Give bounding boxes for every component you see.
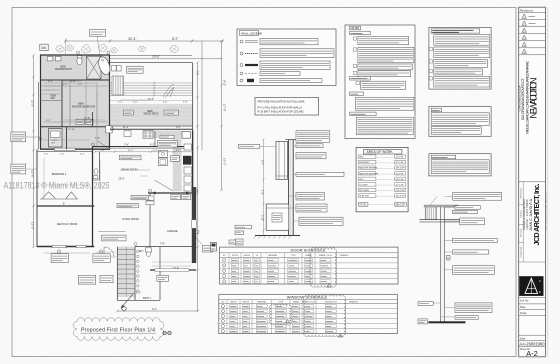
- shower with X: [87, 56, 102, 79]
- column section marker: [447, 255, 450, 260]
- col callout 7: [453, 266, 495, 275]
- toilet: [77, 57, 82, 65]
- floor plan group: [31, 30, 227, 313]
- legend row A existing wall: [240, 40, 243, 43]
- deck right edge: [192, 63, 194, 131]
- job info rows: [519, 296, 546, 298]
- garage left wall: [149, 193, 151, 247]
- label pair in bedroom: [76, 119, 84, 124]
- dims below master block: [44, 154, 85, 156]
- window opening 2: [76, 245, 86, 247]
- vestibule wall: [98, 230, 125, 232]
- revisions header: [519, 12, 546, 14]
- laundry boxes: [112, 66, 117, 72]
- slab lines: [419, 219, 465, 221]
- board dim ticks: [153, 82, 155, 97]
- callout exist structure top: [90, 30, 106, 37]
- bath2 fixtures: [146, 251, 150, 257]
- garage top wall: [148, 192, 196, 194]
- base plate: [428, 321, 465, 323]
- kitchen counters fill: [143, 131, 182, 139]
- stair direction arrow: [121, 294, 133, 308]
- seal row: [519, 334, 546, 336]
- right notes item2: [429, 47, 432, 50]
- architect section divider: [519, 181, 546, 183]
- plant on deck: [163, 84, 174, 98]
- callout below playroom 4: [100, 275, 113, 282]
- bedroom2 top wall: [37, 151, 93, 153]
- legend row E concrete: [240, 79, 243, 82]
- notes item 1: [353, 37, 356, 40]
- right notes item5: [429, 77, 432, 80]
- wall legend box: [237, 29, 336, 86]
- garage right wall thick: [192, 187, 196, 263]
- set top of subfloor label upper: [119, 155, 141, 160]
- right notes item1: [434, 35, 490, 46]
- bath2 walls: [159, 247, 161, 301]
- callout deck label: [127, 66, 144, 73]
- dimension line bottom: [117, 310, 197, 312]
- scale symbols after title: [163, 331, 166, 334]
- garage jambs: [154, 192, 156, 194]
- dimension line second: [110, 58, 223, 60]
- concrete box: [429, 154, 491, 176]
- notes item 4: [353, 71, 356, 74]
- detail right callout 6: [296, 204, 327, 212]
- deck top edge: [110, 62, 193, 64]
- detail right callout 2: [296, 144, 323, 148]
- detail dim line: [263, 140, 265, 236]
- stair left wall: [116, 247, 118, 301]
- detail right callout 7: [299, 217, 343, 225]
- notes header fasteners: [350, 112, 377, 115]
- callout bed dims row: [160, 135, 174, 138]
- column verticals: [440, 207, 442, 322]
- property line: [40, 54, 192, 56]
- leaders column: [430, 197, 460, 317]
- closet doors bedroom2: [42, 192, 55, 199]
- callout right margin garage: [202, 246, 212, 252]
- terrace floor fill: [110, 104, 193, 126]
- wall marker circles: [39, 51, 198, 246]
- wall bath/bedroom divider: [40, 79, 110, 81]
- play room bottom wall: [37, 246, 94, 248]
- wic shelves: [42, 85, 61, 87]
- powder room: [99, 152, 101, 180]
- notes item 2: [353, 48, 356, 51]
- logo black square: [519, 276, 543, 296]
- plan title cloud: [73, 318, 164, 341]
- window opening 1: [52, 245, 66, 247]
- window schedule table: [219, 294, 397, 333]
- revision rows: [519, 19, 546, 21]
- col callout top: [453, 193, 502, 201]
- existing wall at living top: [93, 146, 193, 148]
- wall master block bottom: [40, 148, 110, 150]
- notes box right top: [429, 27, 491, 89]
- exterior wall left: [40, 55, 42, 150]
- area of work total: [358, 203, 368, 207]
- cabinet left of stove: [124, 131, 131, 137]
- callout left bottom A: [235, 225, 251, 229]
- window schedule cloud right: [303, 295, 346, 337]
- left wall bedroom2: [36, 149, 38, 247]
- deck board lines: [110, 82, 193, 84]
- garage wall window gap: [192, 220, 197, 228]
- master block interior dims: [44, 82, 108, 146]
- door schedule table: [220, 247, 399, 284]
- upper cabinet: [276, 142, 288, 180]
- door schedule revision cloud: [310, 248, 337, 288]
- col callout 4: [460, 218, 485, 225]
- col callout bottom right: [455, 303, 492, 313]
- dim line at living top: [95, 151, 193, 153]
- kitchen sink boxes: [159, 150, 168, 157]
- stair numbering circles: [137, 250, 140, 253]
- notes item 5: [356, 82, 359, 85]
- notes para 2: [357, 117, 414, 135]
- callout existing wood: [238, 145, 259, 149]
- stair treads: [117, 249, 135, 251]
- living/hall wall: [135, 246, 192, 248]
- insulation note box: [255, 98, 319, 116]
- leader lines detail: [289, 146, 299, 221]
- bathtub: [97, 55, 112, 76]
- callout left bottom B: [235, 231, 244, 234]
- left wall cavity: [37, 82, 39, 149]
- notes header 2nd floor: [350, 77, 371, 80]
- vanity sinks: [47, 57, 53, 61]
- garage top labels: [171, 195, 181, 200]
- callout terrace left: [123, 110, 133, 115]
- col callout 2: [455, 206, 480, 210]
- logo emblem: [525, 278, 538, 293]
- lower cabinet: [266, 204, 289, 230]
- terrace bottom wall: [110, 125, 193, 127]
- window opening bottom wall: [54, 148, 75, 150]
- callout below playroom 2: [99, 250, 102, 253]
- bedroom2 interior lines: [43, 158, 45, 200]
- left small box bottom: [235, 239, 243, 245]
- dimension line top: [66, 40, 223, 42]
- extra left callout: [11, 164, 26, 174]
- kitchen right wall: [192, 131, 194, 193]
- wall section vertical: [288, 140, 290, 236]
- detail right callout 3: [296, 153, 326, 159]
- callout terrace right: [164, 110, 178, 115]
- wall bottom master bedroom: [40, 126, 110, 128]
- pantry boxes: [184, 144, 192, 150]
- stair bottom: [117, 299, 135, 301]
- callout sub floor: [102, 235, 127, 241]
- garage door opening: [155, 269, 189, 272]
- wall right of master block: [109, 55, 111, 150]
- area of work box: [356, 147, 408, 211]
- callout island: [171, 156, 180, 162]
- floor line: [255, 235, 300, 237]
- door swing living: [155, 180, 173, 191]
- callout left margin: [11, 132, 26, 142]
- existing wall hatch: [425, 207, 427, 220]
- right notes item4: [429, 69, 432, 72]
- oven black: [183, 156, 192, 165]
- col callout left low: [418, 319, 427, 324]
- window boxes right: [106, 126, 113, 133]
- window schedule title row: [219, 299, 397, 301]
- callout below playroom 3: [78, 275, 95, 284]
- legend row B partition: [240, 52, 243, 55]
- exterior wall top (bath block): [40, 54, 110, 56]
- marker diamond: [121, 306, 126, 311]
- dimension line left: [33, 55, 35, 247]
- garage door tracks: [152, 261, 191, 263]
- landscaping trees: [56, 45, 65, 52]
- stair strip fill: [117, 247, 135, 297]
- detail marker left of door schedule: [211, 243, 217, 252]
- callout ac closet: [131, 195, 149, 199]
- col callout 6: [453, 250, 489, 254]
- marker box 5/8: [40, 44, 48, 50]
- col callout left: [418, 302, 433, 306]
- new master suite floor fill: [40, 55, 110, 150]
- deck dim texts row: [118, 102, 188, 104]
- stove burners: [143, 131, 153, 139]
- interior dim lines: [44, 81, 150, 253]
- stair right wall: [134, 247, 136, 301]
- wh closet boxes: [146, 196, 154, 200]
- closet shelving strip: [112, 76, 124, 95]
- detail right callout 1: [296, 131, 330, 142]
- notes para 1: [356, 97, 414, 110]
- wall WIC: [61, 80, 63, 127]
- title block frame: [519, 7, 546, 357]
- col callout spiral tie: [453, 238, 498, 242]
- col callout existing slab: [455, 316, 478, 320]
- dimension line right outer: [221, 41, 223, 190]
- interior dim texts: [48, 80, 181, 311]
- garage bottom wall: [150, 269, 196, 271]
- door schedule title row: [220, 252, 399, 254]
- permits box: [429, 107, 491, 137]
- ac closet label second: [117, 203, 138, 207]
- door swing bedroom: [98, 141, 109, 149]
- outer fold line: [547, 7, 549, 357]
- detail right callout 4: [296, 172, 344, 176]
- beam top lines: [424, 204, 459, 206]
- callout kitchen top: [157, 140, 177, 147]
- kitchen left wall: [154, 131, 156, 147]
- legend row C new wall: [240, 64, 243, 67]
- step room: [49, 129, 63, 148]
- small box above door schedule: [229, 240, 236, 244]
- wall bed2/play divider: [37, 205, 94, 207]
- wall play/living divider: [92, 147, 94, 247]
- architect services strip: [522, 182, 524, 262]
- dimension line right inner: [201, 41, 203, 150]
- notes header general: [350, 92, 364, 95]
- col callout 3: [453, 210, 478, 213]
- legend row D dashed: [240, 72, 243, 75]
- area of work rows: [358, 155, 376, 158]
- kitchen top wall: [110, 128, 193, 130]
- fridge: [182, 132, 190, 139]
- detail right callout 5: [296, 192, 324, 200]
- notes item 3: [353, 64, 356, 67]
- entry door arc: [104, 247, 114, 257]
- terrace hatch lines: [110, 107, 193, 109]
- callout below playroom 1: [57, 250, 60, 253]
- window schedule cloud type: [269, 304, 291, 325]
- right notes item3: [429, 60, 432, 63]
- notes box main: [345, 25, 415, 139]
- entry stoop lines: [96, 251, 116, 253]
- callout garage bottom: [157, 275, 169, 281]
